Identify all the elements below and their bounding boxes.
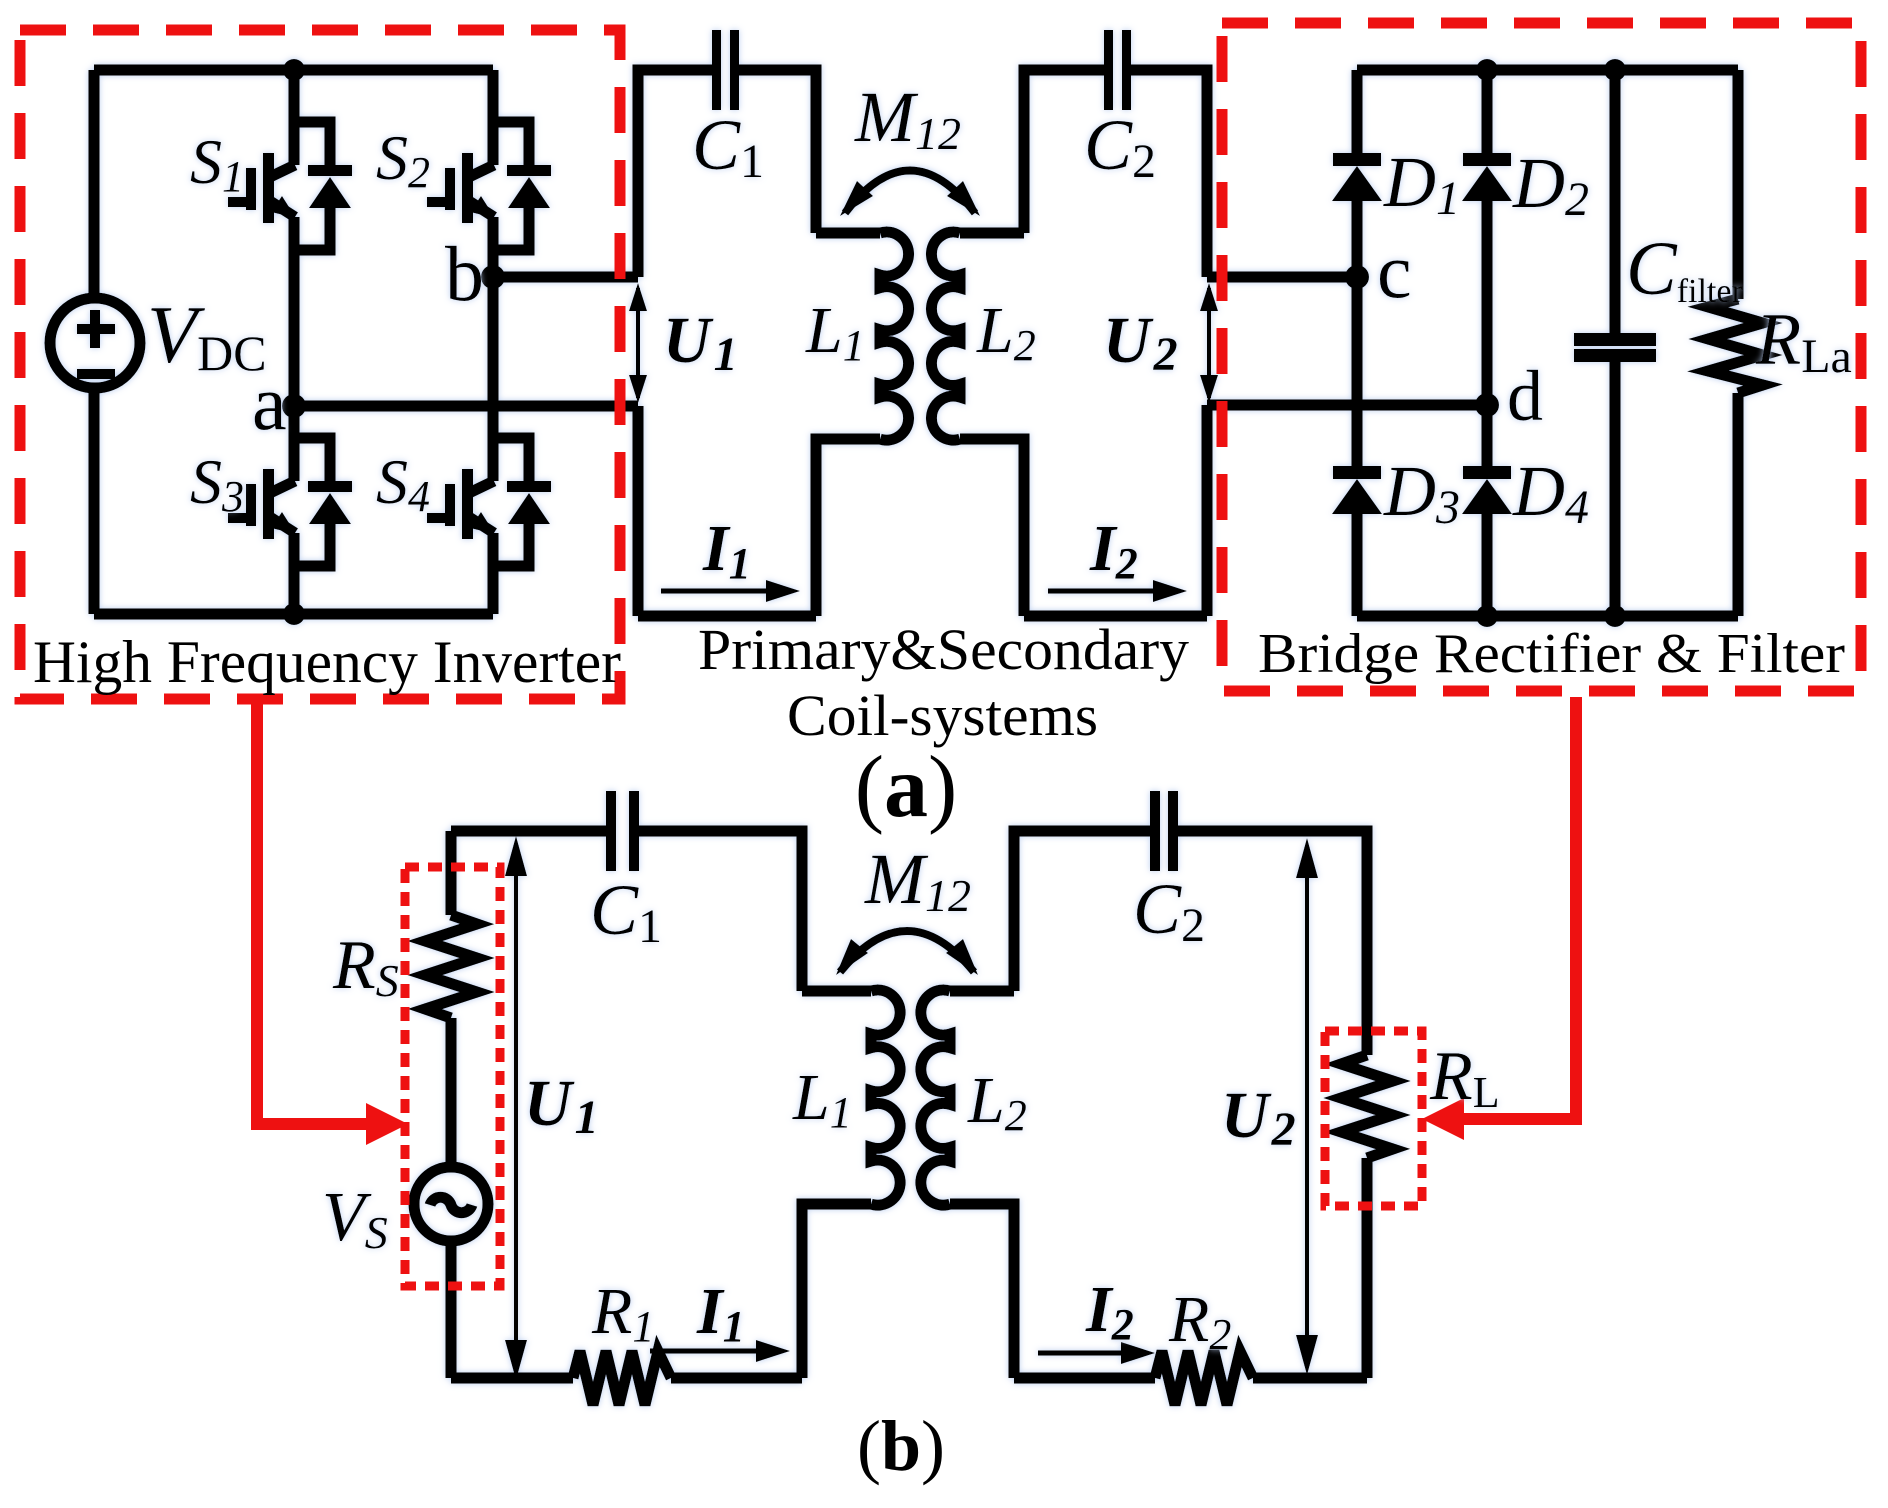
wire: (b) primary bottom rail left part [451, 1373, 573, 1384]
VDC minus sign [77, 369, 115, 379]
red dashed box High Frequency Inverter [20, 30, 620, 699]
wire: left leg S1 collector [289, 70, 300, 165]
capacitor C1 plates [712, 30, 739, 110]
wire: D1 branch upper lead [1352, 70, 1363, 153]
wire: (b) secondary bottom rail left part [1014, 1373, 1155, 1384]
arrow U1 annotation (a) [629, 283, 647, 403]
svg-text:C2: C2 [1084, 105, 1156, 188]
resistor RLa zigzag [1708, 299, 1763, 393]
wire: right leg S2 collector [488, 70, 499, 165]
wire: (b) left vertical below Vs [446, 1240, 457, 1378]
resistor R2 zigzag [1155, 1351, 1253, 1405]
svg-text:U1: U1 [663, 304, 738, 381]
svg-text:S4: S4 [376, 446, 430, 521]
svg-text:D2: D2 [1512, 143, 1589, 226]
wire: Cfilter lower lead [1610, 362, 1621, 616]
red connector arrow from rectifier box to RL box [1422, 697, 1576, 1140]
svg-text:D3: D3 [1383, 451, 1460, 534]
svg-text:High Frequency Inverter: High Frequency Inverter [33, 629, 621, 695]
diode D2 [1462, 153, 1512, 201]
wire: (b) right vertical below RL [1362, 1158, 1373, 1378]
junction dot bottom rail [283, 603, 305, 625]
wire: node b to primary tank [493, 272, 638, 283]
svg-text:RLa: RLa [1755, 299, 1852, 383]
transistor S4 [427, 469, 495, 539]
svg-text:Bridge Rectifier & Filter: Bridge Rectifier & Filter [1258, 623, 1845, 685]
arrow I2 annotation (b) [1038, 1342, 1155, 1364]
wire: primary left vertical upper [638, 70, 712, 277]
svg-text:L2: L2 [967, 1064, 1027, 1140]
junction dots rectifier rails [1476, 59, 1626, 627]
svg-text:(a): (a) [855, 739, 958, 836]
svg-text:C1: C1 [590, 870, 662, 953]
wire: D2 to d to D4 [1482, 201, 1493, 466]
arrow I1 annotation (a) [661, 580, 800, 602]
wire: (b) secondary top step to coil [950, 986, 1014, 997]
transistor S2 [427, 153, 495, 223]
junction dot top rail [283, 59, 305, 81]
capacitor C2 plates (b) [1150, 791, 1178, 871]
diode antiparallel of S1 [294, 122, 352, 250]
red connector arrow from inverter box to Vs box [257, 699, 408, 1145]
Vs sine symbol [430, 1197, 472, 1212]
wire: inverter top rail [94, 65, 493, 76]
svg-text:(b): (b) [857, 1406, 945, 1486]
wire: node d link from secondary [1207, 400, 1487, 411]
svg-text:U2: U2 [1221, 1079, 1296, 1156]
svg-text:I1: I1 [702, 512, 751, 588]
wire: left leg S1 emitter to S3 collector through node a [289, 217, 300, 481]
wire: node c link from secondary [1207, 272, 1357, 283]
wire: rectifier bottom rail [1357, 611, 1738, 622]
node c dot [1345, 265, 1369, 289]
svg-text:I2: I2 [1085, 1273, 1134, 1349]
wire: (b) primary bottom rail right part [671, 1373, 802, 1384]
diode D3 [1332, 466, 1382, 514]
red dashed box Bridge Rectifier and Filter [1222, 23, 1861, 691]
wire: RLa upper lead [1733, 70, 1744, 299]
svg-text:D1: D1 [1383, 142, 1460, 225]
svg-text:D4: D4 [1512, 451, 1589, 534]
wire: right leg S2 emitter to S4 collector through node b [488, 217, 499, 481]
node d dot [1475, 393, 1499, 417]
svg-text:R2: R2 [1168, 1283, 1231, 1359]
wire: primary left vertical lower [633, 406, 644, 616]
TEXT GROUP [147, 77, 1852, 1359]
svg-text:L1: L1 [792, 1061, 852, 1137]
svg-text:R1: R1 [591, 1275, 654, 1351]
wire: (b) secondary bottom step from coil [950, 1204, 1014, 1378]
wire: primary bottom step from coil [816, 439, 880, 616]
wire: Rs to top corner [446, 831, 457, 915]
svg-text:U2: U2 [1103, 304, 1178, 381]
wire: D4 lower lead [1482, 514, 1493, 616]
arrow U1 annotation (b) [505, 836, 527, 1380]
wire: Vs to Rs [446, 1018, 457, 1168]
svg-text:b: b [445, 230, 484, 317]
svg-text:L2: L2 [976, 294, 1036, 370]
node a dot [282, 394, 306, 418]
inductor L1 coil [880, 232, 909, 440]
node b dot [481, 265, 505, 289]
diode antiparallel of S3 [294, 438, 352, 566]
svg-text:U1: U1 [524, 1067, 599, 1144]
svg-text:M12: M12 [864, 839, 971, 921]
resistor RL zigzag (b) [1341, 1055, 1393, 1158]
inductor L2 coil (b) [921, 990, 950, 1205]
svg-text:C2: C2 [1133, 869, 1205, 952]
wire: D3 lower lead [1352, 514, 1363, 616]
transistor S1 [228, 153, 296, 223]
wire: (b) top rail left of C1 [451, 826, 606, 837]
transistor S3 [228, 469, 296, 539]
wire: secondary bottom step from coil [960, 439, 1024, 616]
resistor R1 zigzag [573, 1351, 671, 1405]
wire: (b) secondary bottom rail right part [1253, 1373, 1367, 1384]
wire: right leg S4 emitter [488, 533, 499, 614]
VDC plus sign [77, 310, 115, 348]
svg-text:C1: C1 [692, 105, 764, 188]
wire: D1 to c to D3 [1352, 201, 1363, 466]
wire: secondary bottom rail [1024, 611, 1207, 622]
wire: VDC top lead [89, 70, 100, 298]
wire: D2 branch upper lead [1482, 70, 1493, 153]
red dotted box around RL [1325, 1031, 1422, 1206]
wire: primary top rail right of C1 [739, 70, 816, 233]
svg-text:RS: RS [332, 927, 399, 1006]
source VDC circle [50, 298, 140, 388]
svg-text:M12: M12 [854, 77, 961, 159]
wire: (b) primary top step to coil [802, 986, 871, 997]
wire: RLa lower lead [1733, 393, 1744, 616]
wire: left leg S3 emitter [289, 533, 300, 614]
wire: rectifier top rail [1357, 65, 1738, 76]
wire: inverter bottom rail [94, 609, 493, 620]
wire: primary bottom rail [638, 611, 816, 622]
wire: secondary right vertical lower [1202, 405, 1213, 616]
source Vs circle [414, 1167, 488, 1241]
svg-text:I2: I2 [1089, 512, 1138, 588]
arrow U2 annotation (a) [1200, 283, 1218, 403]
svg-text:Cfilter: Cfilter [1626, 227, 1743, 311]
diode antiparallel of S4 [493, 438, 551, 566]
wire: (b) top rail right of C2 [1178, 831, 1367, 1055]
mutual coupling arc M12 (b) [836, 931, 978, 975]
arrow U2 annotation (b) [1296, 838, 1318, 1375]
wire: secondary left vertical upper [1024, 70, 1104, 233]
capacitor Cfilter plates [1574, 333, 1656, 362]
svg-text:c: c [1377, 227, 1412, 314]
wire: primary top step to coil [816, 228, 880, 239]
inductor L2 coil [931, 232, 960, 440]
mutual coupling arc M12 (a) [840, 171, 980, 217]
capacitor C1 plates (b) [606, 791, 639, 871]
wire: (b) secondary upper vertical [1014, 831, 1150, 991]
svg-text:L1: L1 [805, 294, 865, 370]
svg-text:a: a [252, 359, 287, 446]
svg-text:Primary&Secondary: Primary&Secondary [698, 617, 1189, 682]
wire: node a to primary tank [294, 401, 638, 412]
red dotted box around Rs and Vs [405, 867, 500, 1286]
wire: (b) primary bottom step from coil [802, 1204, 871, 1378]
resistor Rs zigzag [425, 915, 477, 1018]
svg-text:VDC: VDC [147, 289, 267, 381]
arrow I2 annotation (a) [1048, 580, 1187, 602]
svg-text:S3: S3 [190, 446, 244, 521]
diode antiparallel of S2 [493, 122, 551, 250]
svg-text:I1: I1 [696, 1275, 745, 1351]
inductor L1 coil (b) [871, 990, 900, 1205]
wire: Cfilter upper lead [1610, 70, 1621, 333]
wire: secondary top step to coil [960, 228, 1024, 239]
svg-text:S1: S1 [190, 126, 244, 201]
diode D1 [1332, 153, 1382, 201]
capacitor C2 plates [1104, 30, 1131, 110]
wire: (b) top rail right of C1 [639, 831, 802, 991]
svg-text:RL: RL [1429, 1038, 1500, 1117]
svg-text:S2: S2 [376, 122, 430, 197]
wire: secondary top rail right of C2 [1131, 70, 1207, 277]
diode D4 [1462, 466, 1512, 514]
wire: VDC bottom lead [89, 389, 100, 614]
arrow I1 annotation (b) [650, 1340, 790, 1362]
svg-text:VS: VS [322, 1179, 388, 1258]
svg-text:d: d [1507, 356, 1543, 436]
